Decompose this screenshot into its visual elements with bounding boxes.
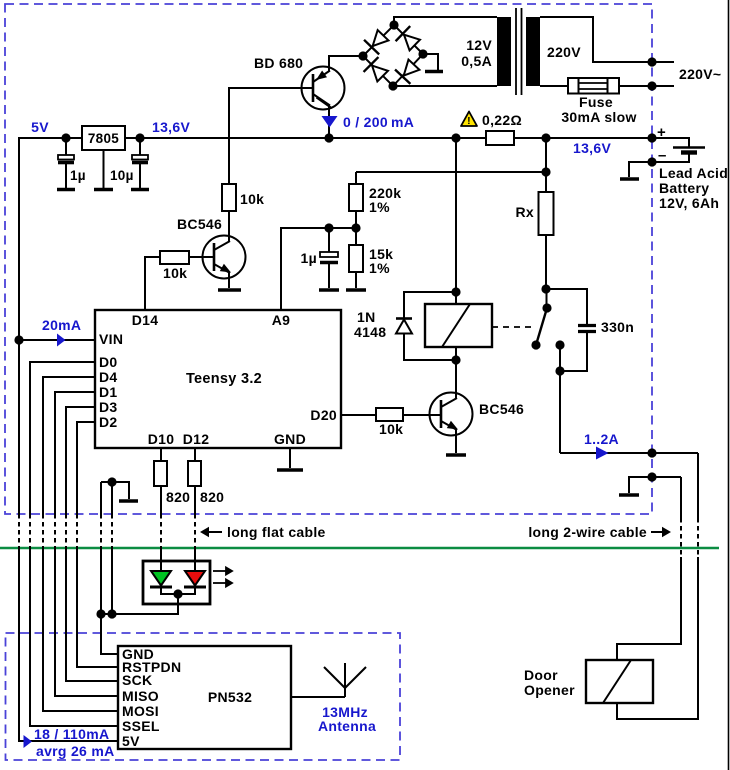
diode D1 1N4148 (flyback) [404, 292, 456, 360]
capacitor C4 330n [578, 324, 596, 327]
resistor R4 15k 1% [349, 245, 363, 272]
bridge diode D5 (bottom-right) [395, 57, 422, 83]
wire 820 to LED (flat cable) [194, 486, 196, 514]
svg-text:Fuse: Fuse [579, 94, 613, 110]
svg-text:Opener: Opener [524, 682, 575, 698]
resistor R8 Rx [539, 192, 554, 235]
wire relay coil to Q3 collector [455, 347, 457, 393]
relay K1 coil [425, 304, 492, 347]
svg-text:Lead Acid: Lead Acid [659, 165, 728, 181]
svg-text:SCK: SCK [122, 672, 152, 688]
IC U1 Teensy 3.2 [95, 310, 341, 448]
wire D1 to PN532 MISO [55, 392, 95, 514]
capacitor C2 10u [132, 138, 148, 188]
wire switch output [559, 345, 561, 371]
wall separator line [0, 547, 719, 549]
resistor R2 10k [222, 184, 236, 211]
svg-text:D12: D12 [183, 431, 210, 447]
wire bridge bottom to transformer [393, 85, 497, 87]
svg-text:BC546: BC546 [479, 401, 524, 417]
resistor R1 10k (base) [160, 251, 189, 264]
wire GND to PN532 [101, 614, 118, 654]
ground (7805) [94, 188, 113, 192]
resistor R6 10k [376, 408, 403, 421]
wire D20 to 10k (R6) [341, 414, 376, 416]
svg-text:4148: 4148 [354, 324, 386, 340]
svg-text:1%: 1% [369, 199, 390, 215]
capacitor C1 1u [58, 138, 74, 188]
wire bridge right to ground [423, 54, 438, 70]
svg-text:10k: 10k [240, 191, 264, 207]
ground (Teensy) [277, 468, 303, 472]
transformer T1 secondary winding [497, 17, 511, 86]
wire Rx to switch [545, 235, 547, 289]
svg-text:D1: D1 [99, 384, 118, 400]
svg-text:+: + [657, 124, 666, 141]
svg-text:820: 820 [166, 489, 190, 505]
resistor R3 220k 1% [355, 172, 357, 184]
current arrow 1..2A (blue) [596, 447, 609, 460]
svg-text:GND: GND [274, 431, 306, 447]
bridge rectifier (4 diodes) [363, 25, 423, 86]
wire LED return 1 [100, 482, 102, 514]
wire Q2 emitter to ground [228, 272, 230, 288]
wire LED cathodes return [161, 587, 195, 594]
svg-text:Teensy 3.2: Teensy 3.2 [186, 371, 262, 387]
ground (Q3) [446, 453, 466, 457]
resistor 820 [154, 461, 167, 486]
svg-text:BD 680: BD 680 [254, 55, 303, 71]
svg-text:SSEL: SSEL [122, 718, 160, 734]
svg-text:30mA slow: 30mA slow [561, 109, 636, 125]
wire primary top to 220V terminal [540, 17, 674, 62]
capacitor C3 1u [320, 228, 338, 288]
IC U3 PN532 [118, 646, 291, 749]
svg-text:20mA: 20mA [42, 317, 81, 333]
svg-text:D4: D4 [99, 369, 118, 385]
svg-text:MOSI: MOSI [122, 703, 159, 719]
ground (Q2) [218, 288, 241, 292]
svg-text:avrg 26 mA: avrg 26 mA [36, 743, 114, 759]
ground (C3) [319, 288, 339, 292]
svg-text:Rx: Rx [516, 204, 535, 220]
svg-text:5V: 5V [31, 119, 49, 135]
svg-text:Door: Door [524, 667, 558, 683]
svg-text:330n: 330n [601, 319, 634, 335]
ground (output return) [619, 493, 639, 497]
wire D14 to R1 [145, 257, 160, 310]
svg-text:0,5A: 0,5A [461, 53, 492, 69]
wire bridge top to transformer [394, 17, 497, 25]
svg-text:D10: D10 [148, 431, 175, 447]
wire Q3 emitter to ground [455, 429, 457, 453]
wire Q3 collector [455, 393, 457, 398]
wire LED return 2 [111, 482, 113, 514]
svg-text:1µ: 1µ [70, 168, 86, 183]
wire D2 to PN532 RSTPDN [77, 422, 95, 514]
svg-text:A9: A9 [272, 312, 291, 328]
wire 5V rail (7805 output, left) [19, 138, 82, 514]
LED indicator box [143, 561, 210, 604]
svg-text:1%: 1% [369, 260, 390, 276]
svg-text:820: 820 [200, 489, 224, 505]
PN532 module enclosure (dashed) [6, 633, 401, 760]
wire D12 to 820 [194, 448, 196, 461]
ground (bridge) [425, 70, 443, 74]
svg-text:13,6V: 13,6V [152, 119, 190, 135]
ground (C1) [57, 188, 75, 192]
current arrow 18/110mA (blue) [24, 735, 33, 748]
transformer T1 primary winding [526, 17, 540, 86]
svg-text:12V: 12V [466, 37, 492, 53]
wire switch common [546, 289, 548, 308]
wire D4 to PN532 MOSI [43, 377, 95, 514]
wire output 1..2A [560, 452, 698, 454]
7805 ground pin wire [103, 150, 105, 188]
svg-text:!: ! [467, 115, 471, 127]
wire rail to 10k (R2) [228, 183, 230, 185]
wire D0 to PN532 SSEL [30, 362, 95, 514]
wire output down [559, 371, 561, 453]
svg-text:220V: 220V [547, 44, 581, 60]
wire 13.6V rail [125, 137, 486, 139]
transistor Q3 BC546 [430, 393, 473, 436]
long flat cable label [202, 529, 222, 536]
switch contact (relay) [536, 308, 547, 345]
relay actuation dashed link [492, 326, 535, 328]
svg-text:D3: D3 [99, 399, 118, 415]
wire PN532 to antenna [291, 696, 345, 698]
svg-text:5V: 5V [122, 733, 140, 749]
svg-text:D2: D2 [99, 414, 118, 430]
svg-text:10k: 10k [163, 265, 187, 281]
wire battery minus to ground [629, 162, 652, 177]
ground (C2) [131, 188, 149, 192]
LED light arrows [213, 568, 232, 587]
ground (R4) [346, 288, 366, 292]
svg-text:10µ: 10µ [110, 168, 134, 183]
svg-text:18 / 110mA: 18 / 110mA [34, 726, 109, 742]
wire Q1 emitter to bridge [329, 56, 363, 71]
wire primary bottom to fuse [540, 85, 568, 87]
svg-text:1..2A: 1..2A [584, 431, 619, 447]
wire 13.6V to Rx [545, 138, 547, 192]
wire R6 to Q3 base [403, 414, 441, 416]
ground (LED return) [119, 499, 138, 503]
svg-text:PN532: PN532 [208, 689, 252, 705]
wire battery + [652, 138, 689, 147]
wire Teensy GND to ground [289, 448, 291, 468]
current arrow 0/200mA (blue) [322, 116, 338, 128]
svg-text:1µ: 1µ [301, 250, 317, 266]
transistor Q1 BD 680 (PNP darlington) [302, 67, 345, 110]
wire D10 to 820 [160, 448, 162, 461]
wire rail to relay coil [455, 138, 457, 304]
svg-text:0,22Ω: 0,22Ω [482, 112, 522, 128]
wire return node to ground [629, 477, 681, 493]
transformer T1 core [515, 8, 517, 95]
svg-text:1N: 1N [357, 309, 376, 325]
svg-text:7805: 7805 [88, 131, 119, 146]
wire VIN (5V supply) [19, 339, 95, 341]
battery BT1 plates [673, 146, 705, 149]
svg-text:0 / 200 mA: 0 / 200 mA [343, 114, 414, 130]
bridge diode D4 (bottom-left) [364, 57, 391, 84]
svg-text:D20: D20 [310, 407, 337, 423]
bridge diode D2 (top-left) [364, 28, 391, 54]
svg-text:Antenna: Antenna [318, 718, 376, 734]
svg-text:13,6V: 13,6V [573, 140, 611, 156]
svg-text:10k: 10k [379, 421, 403, 437]
wire 220k to Rx node [356, 171, 546, 173]
svg-text:Battery: Battery [659, 180, 709, 196]
bridge diode D3 (top-right) [396, 26, 422, 53]
main unit enclosure (dashed) [5, 4, 652, 514]
wire 2-wire cable (return) [680, 477, 682, 518]
wire R1 to Q2 base [189, 256, 214, 258]
wire R2 to Q2 collector [228, 211, 230, 242]
resistor 820 [188, 461, 201, 486]
svg-text:220V~: 220V~ [679, 66, 721, 82]
wire A9 to divider [281, 228, 356, 310]
resistor R7 0,22 [486, 131, 514, 145]
wire 5V down cable (dashed crossing) [18, 514, 20, 547]
svg-text:–: – [658, 147, 667, 164]
svg-text:long 2-wire cable: long 2-wire cable [528, 524, 647, 540]
ground (battery) [620, 177, 639, 181]
svg-text:12V, 6Ah: 12V, 6Ah [659, 195, 719, 211]
antenna symbol [324, 663, 366, 697]
svg-text:D0: D0 [99, 354, 118, 370]
wire switch top to 330n [546, 289, 587, 324]
svg-text:BC546: BC546 [177, 216, 222, 232]
wire R3 to R4 [355, 211, 357, 245]
wire D3 to PN532 SCK [66, 407, 95, 514]
transistor Q2 BC546 [203, 236, 246, 279]
LED red [185, 571, 205, 586]
wire LED return bus (grounded) [101, 482, 129, 499]
warning triangle [461, 112, 477, 127]
svg-text:D14: D14 [132, 312, 159, 328]
wire Q1 collector down [328, 106, 330, 139]
wire BD680 base to 10k [229, 88, 313, 184]
regulator U2 7805 [82, 126, 125, 150]
door opener solenoid [586, 660, 653, 703]
fuse F1 [568, 78, 619, 94]
wire 330n to output node [560, 333, 587, 371]
wire 5V to PN532 [19, 547, 118, 741]
wire R4 to ground [355, 272, 357, 288]
LED green [151, 571, 171, 586]
wire fuse to 220V terminal [619, 85, 674, 87]
svg-text:VIN: VIN [99, 331, 123, 347]
wire battery - [652, 153, 689, 162]
wire 2-wire cable (feed) [697, 453, 699, 518]
svg-text:long flat cable: long flat cable [227, 524, 326, 540]
current arrow 20mA (blue) [57, 334, 66, 347]
wire 820 to LED (flat cable) [160, 486, 162, 514]
svg-text:MISO: MISO [122, 688, 159, 704]
